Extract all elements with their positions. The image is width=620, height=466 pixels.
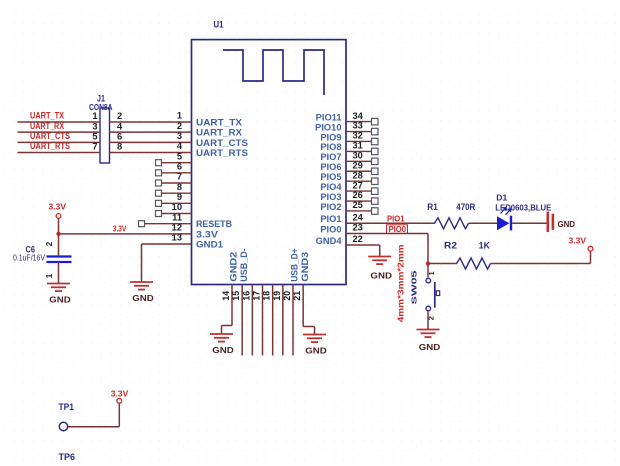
U1 pin 29 no-connect stub <box>346 170 372 172</box>
LED D1 cathode bar <box>510 216 512 231</box>
U1 pin 32 no-connect square <box>372 138 379 145</box>
power port 3.3V (left) <box>56 214 61 219</box>
svg-text:UART_TX: UART_TX <box>196 118 243 128</box>
U1 pin 9 no-connect square <box>156 200 162 206</box>
U1 pin 30 no-connect stub <box>346 160 372 162</box>
connector J1 body <box>100 108 110 163</box>
U1 pin 5 no-connect square <box>156 160 162 166</box>
svg-text:PIO1: PIO1 <box>387 215 405 224</box>
svg-text:R1: R1 <box>427 202 438 212</box>
svg-text:7: 7 <box>92 142 97 152</box>
junction B (switch/R2) <box>426 261 430 265</box>
svg-text:TP6: TP6 <box>59 452 76 462</box>
svg-text:GND: GND <box>305 345 327 355</box>
svg-text:32: 32 <box>353 131 363 141</box>
ground (switch) <box>417 329 440 331</box>
U1 pin 27 no-connect square <box>372 188 379 195</box>
U1 pin 28 no-connect stub <box>346 180 372 182</box>
U1 pin 31 no-connect stub <box>346 150 372 152</box>
wire U1 pin21 down <box>302 285 304 327</box>
U1 pin 29 no-connect square <box>372 168 379 175</box>
svg-text:470R: 470R <box>456 202 475 212</box>
wire U1 pin23 horizontal <box>346 233 428 235</box>
capacitor C6 top plate <box>47 255 72 257</box>
wire R2 to 3.3V riser <box>491 263 591 265</box>
svg-text:PIO3: PIO3 <box>320 192 341 202</box>
IC U1 body (Bluetooth module outline) <box>192 40 347 285</box>
svg-text:GND4: GND4 <box>316 236 343 246</box>
svg-text:28: 28 <box>353 170 363 180</box>
svg-text:6: 6 <box>117 132 122 142</box>
svg-text:R2: R2 <box>444 241 457 251</box>
wire 3.3V port to junction <box>58 218 60 233</box>
wire pin14 jog left <box>222 325 233 327</box>
svg-text:1: 1 <box>92 111 97 121</box>
U1 pin 26 no-connect stub <box>346 200 372 202</box>
U1 pin 10 no-connect stub <box>162 213 192 215</box>
svg-text:GND: GND <box>49 294 71 304</box>
svg-text:3.3V: 3.3V <box>569 235 587 245</box>
svg-text:PIO8: PIO8 <box>320 142 341 152</box>
svg-text:1: 1 <box>427 271 436 275</box>
U1 pin 6 no-connect square <box>156 170 162 176</box>
wire junction to C6 pin2 <box>58 234 60 256</box>
switch S1 actuator bar <box>434 282 436 308</box>
svg-text:TP1: TP1 <box>59 402 75 412</box>
svg-text:25: 25 <box>353 200 363 210</box>
wire pin21 to ground <box>314 327 316 335</box>
U1 pin 28 no-connect square <box>372 178 379 185</box>
U1 pin 6 no-connect stub <box>162 172 192 174</box>
wire U1 pin24 to R1 <box>346 222 435 224</box>
wire UART_TX (J1 to U1 pin 1) <box>110 121 192 123</box>
wire UART_TX (left of J1) <box>18 121 101 123</box>
U1 pin 34 no-connect square <box>372 118 379 125</box>
svg-text:USB_D+: USB_D+ <box>290 248 300 282</box>
svg-text:PIO11: PIO11 <box>316 112 342 122</box>
wire UART_RX (left of J1) <box>18 131 101 133</box>
wire U1 pin13 horizontal <box>142 243 192 245</box>
switch S1 bottom contact <box>426 306 431 311</box>
U1 pin 9 no-connect stub <box>162 202 192 204</box>
U1 pin 7 no-connect stub <box>162 182 192 184</box>
svg-text:PIO1: PIO1 <box>320 214 341 224</box>
wire UART_RX (J1 to U1 pin 2) <box>110 131 192 133</box>
svg-text:PIO5: PIO5 <box>320 172 341 182</box>
ground (pin 21) <box>303 334 326 336</box>
power port 3.3V (right) <box>588 246 593 251</box>
U1 pin 18 wire (hanging) <box>272 285 274 356</box>
wire junction to switch pin1 <box>427 264 429 278</box>
wire pin21 jog right <box>303 326 314 328</box>
wire riser to 3.3V port (TP1) <box>118 403 120 427</box>
LED D1 arrow 1 <box>501 208 507 214</box>
svg-text:RESETB: RESETB <box>196 219 232 229</box>
wire D1 to ground bar <box>512 222 546 224</box>
junction A (3.3V/C6/pin12) <box>56 232 60 236</box>
svg-text:UART_RTS: UART_RTS <box>30 141 70 151</box>
svg-text:USB_D-: USB_D- <box>239 248 249 282</box>
svg-text:4: 4 <box>117 121 123 131</box>
U1 pin 19 wire (hanging) <box>282 285 284 356</box>
ground bar (after D1) short bar <box>552 214 555 230</box>
svg-text:PIO4: PIO4 <box>320 182 342 192</box>
wire U1 pin14 down <box>231 285 233 326</box>
U1 pin 8 no-connect square <box>156 190 162 196</box>
svg-text:5: 5 <box>177 151 182 161</box>
ground (pin 22) <box>368 256 391 258</box>
wire pin14 to ground <box>221 326 223 335</box>
svg-text:PIO9: PIO9 <box>320 132 341 142</box>
U1 pin 33 no-connect stub <box>346 131 372 133</box>
U1 pin 25 no-connect stub <box>346 210 372 212</box>
svg-text:3.3V: 3.3V <box>49 202 67 212</box>
U1 antenna meander symbol <box>223 50 324 95</box>
svg-text:3.3V: 3.3V <box>196 229 219 239</box>
svg-text:30: 30 <box>353 151 363 161</box>
svg-text:31: 31 <box>353 141 363 151</box>
svg-text:29: 29 <box>353 160 363 170</box>
svg-text:GND: GND <box>132 293 154 303</box>
wire pin13 down to ground <box>141 244 143 282</box>
U1 pin 34 no-connect stub <box>346 121 372 123</box>
svg-text:UART_RX: UART_RX <box>30 121 64 131</box>
U1 pin 15 wire (hanging) <box>241 285 243 356</box>
svg-text:UART_RTS: UART_RTS <box>196 148 248 158</box>
svg-text:LED0603,BLUE: LED0603,BLUE <box>495 203 551 213</box>
resistor R2 <box>457 258 491 269</box>
U1 pin 11 no-connect square <box>139 221 145 227</box>
test point TP1 pad <box>59 422 67 430</box>
LED D1 triangle <box>497 216 509 230</box>
svg-text:4: 4 <box>177 141 183 151</box>
net label PIO0 box <box>387 225 408 234</box>
U1 pin 26 no-connect square <box>372 198 379 205</box>
svg-text:2: 2 <box>177 121 182 131</box>
svg-text:UART_RX: UART_RX <box>196 128 243 138</box>
U1 pin 16 wire (hanging) <box>251 285 253 356</box>
ground bar (after D1) tall bar <box>547 212 550 233</box>
wire U1 pin12 to 3.3V junction <box>59 233 192 235</box>
svg-text:1K: 1K <box>479 241 490 251</box>
U1 pin 17 wire (hanging) <box>262 285 264 356</box>
svg-text:UART_TX: UART_TX <box>30 111 64 121</box>
U1 pin 11 no-connect stub <box>145 223 192 225</box>
svg-text:PIO0: PIO0 <box>320 224 341 234</box>
svg-text:0.1uF/16V: 0.1uF/16V <box>13 254 46 263</box>
svg-text:2: 2 <box>117 111 122 121</box>
svg-text:PIO2: PIO2 <box>320 202 341 212</box>
svg-text:8: 8 <box>117 142 122 152</box>
LED D1 arrow 2 <box>506 209 512 215</box>
svg-text:3: 3 <box>92 121 97 131</box>
svg-text:GND: GND <box>558 219 576 229</box>
svg-text:UART_CTS: UART_CTS <box>196 138 248 148</box>
wire R1 to D1 <box>469 222 498 224</box>
power port 3.3V (TP1) <box>117 398 122 403</box>
svg-text:14: 14 <box>221 291 231 301</box>
capacitor C6 bottom plate <box>47 261 72 263</box>
ground (pin 13) <box>130 281 153 283</box>
svg-text:27: 27 <box>353 180 363 190</box>
U1 pin 30 no-connect square <box>372 158 379 165</box>
svg-text:3.3V: 3.3V <box>111 389 129 399</box>
svg-text:U1: U1 <box>214 20 224 30</box>
U1 pin 31 no-connect square <box>372 148 379 155</box>
switch S1 button <box>436 291 439 296</box>
wire TP1 to riser <box>68 426 120 428</box>
wire pin22 down to ground <box>379 245 381 257</box>
U1 pin 7 no-connect square <box>156 180 162 186</box>
wire switch pin2 to ground <box>427 311 429 330</box>
svg-text:22: 22 <box>353 234 363 244</box>
wire UART_CTS (left of J1) <box>18 141 101 143</box>
wire junction to R2 <box>428 263 457 265</box>
svg-text:GND: GND <box>419 342 441 352</box>
svg-text:34: 34 <box>353 111 364 121</box>
wire U1 pin22 horizontal <box>346 244 380 246</box>
svg-text:PIO7: PIO7 <box>320 152 341 162</box>
svg-text:26: 26 <box>353 190 363 200</box>
svg-text:23: 23 <box>353 223 363 233</box>
U1 pin 32 no-connect stub <box>346 140 372 142</box>
U1 pin 10 no-connect square <box>156 211 162 217</box>
svg-text:PIO10: PIO10 <box>315 122 341 132</box>
wire riser to 3.3V port <box>590 251 592 264</box>
svg-text:D1: D1 <box>496 193 507 203</box>
wire C6 pin1 to ground <box>58 262 60 284</box>
resistor R1 <box>435 218 469 229</box>
U1 pin 27 no-connect stub <box>346 190 372 192</box>
U1 pin 20 wire (hanging) <box>292 285 294 356</box>
svg-text:GND1: GND1 <box>196 240 223 250</box>
wire UART_RTS (left of J1) <box>18 152 101 154</box>
U1 pin 33 no-connect square <box>372 128 379 135</box>
svg-text:24: 24 <box>353 213 364 223</box>
wire UART_RTS (J1 to U1 pin 4) <box>110 152 192 154</box>
wire pin23 down to junction <box>427 234 429 264</box>
svg-text:1: 1 <box>177 111 182 121</box>
U1 pin 5 no-connect stub <box>162 162 192 164</box>
ground (pin 14) <box>210 333 233 335</box>
ground (C6) <box>47 283 70 285</box>
svg-text:2: 2 <box>45 241 54 246</box>
U1 pin 25 no-connect square <box>372 208 379 215</box>
svg-text:GND: GND <box>370 270 392 280</box>
svg-text:GND2: GND2 <box>229 252 239 282</box>
switch S1 top contact <box>426 278 431 283</box>
svg-text:1: 1 <box>45 273 54 278</box>
U1 pin 8 no-connect stub <box>162 192 192 194</box>
svg-text:4mm*3mm*2mm: 4mm*3mm*2mm <box>397 244 406 322</box>
svg-text:PIO6: PIO6 <box>320 162 341 172</box>
svg-text:SW05: SW05 <box>409 269 418 304</box>
svg-text:UART_CTS: UART_CTS <box>30 131 70 141</box>
svg-text:3: 3 <box>177 131 182 141</box>
wire UART_CTS (J1 to U1 pin 3) <box>110 141 192 143</box>
svg-text:3.3V: 3.3V <box>113 225 127 234</box>
svg-text:GND3: GND3 <box>300 252 310 282</box>
svg-text:33: 33 <box>353 121 363 131</box>
svg-text:5: 5 <box>92 132 97 142</box>
svg-text:GND: GND <box>212 345 234 355</box>
